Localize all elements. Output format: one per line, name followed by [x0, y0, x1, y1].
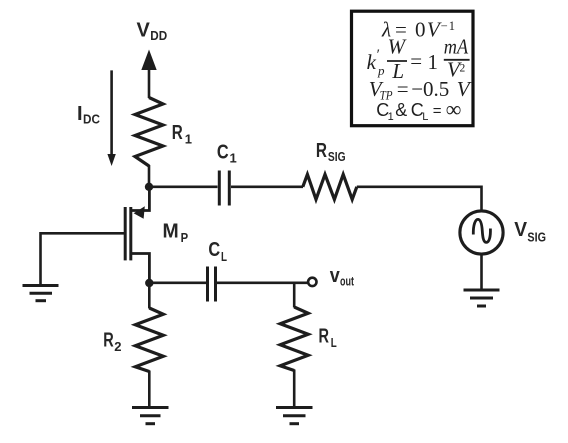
- svg-text:′: ′: [376, 47, 380, 63]
- equation C1 and CL = infinity: [376, 96, 461, 123]
- current arrow IDC: [107, 70, 115, 166]
- wire junction to RL: [293, 283, 296, 308]
- label R2: [103, 330, 121, 355]
- VDD arrow (supply): [141, 50, 156, 99]
- svg-text:C: C: [217, 142, 229, 164]
- svg-text:2: 2: [460, 63, 466, 75]
- capacitor C1: [219, 171, 229, 206]
- svg-text:SIG: SIG: [527, 229, 546, 244]
- svg-text:0: 0: [415, 18, 426, 42]
- svg-text:∞: ∞: [446, 96, 462, 121]
- wire RL to ground: [293, 370, 296, 408]
- wire R2 to ground: [148, 371, 151, 408]
- resistor RL: [280, 307, 308, 371]
- wire node B to CL: [149, 281, 206, 284]
- svg-text:p: p: [377, 63, 385, 78]
- source VSIG circle: [460, 211, 503, 254]
- label CL: [208, 239, 227, 264]
- ground (RL): [276, 408, 313, 424]
- svg-text:mA: mA: [444, 35, 468, 59]
- ground (gate): [23, 286, 59, 301]
- label R1: [172, 122, 192, 146]
- label C1: [217, 142, 237, 166]
- wire node B to R2: [148, 283, 151, 309]
- node A (drain of R1 / source of MP / C1): [145, 183, 153, 191]
- svg-text:I: I: [77, 103, 83, 125]
- resistor RSIG: [303, 174, 357, 199]
- transistor MP (PMOS): [125, 187, 149, 283]
- label MP: [163, 220, 189, 245]
- wire RSIG to VSIG: [357, 187, 482, 211]
- svg-text:=: =: [410, 49, 422, 73]
- svg-text:−0.5: −0.5: [411, 77, 449, 101]
- svg-text:L: L: [331, 335, 337, 350]
- svg-text:L: L: [221, 249, 227, 264]
- svg-text:C: C: [208, 239, 220, 261]
- svg-text:R: R: [316, 140, 328, 162]
- wire VSIG to ground: [480, 254, 483, 290]
- svg-text:2: 2: [114, 339, 121, 354]
- label VDD: [137, 19, 168, 43]
- wire node A to C1: [149, 186, 218, 189]
- label vout: [330, 265, 355, 289]
- resistor R2: [135, 308, 163, 372]
- ground (R2): [132, 408, 169, 424]
- svg-text:DD: DD: [150, 28, 167, 43]
- capacitor CL: [208, 267, 216, 302]
- svg-text:=: =: [433, 102, 442, 119]
- svg-text:out: out: [340, 274, 354, 289]
- svg-text:DC: DC: [83, 112, 100, 127]
- equation lambda = 0 V^-1: [381, 18, 455, 42]
- svg-text:R: R: [103, 330, 114, 352]
- node vout open terminal: [308, 278, 316, 286]
- ground (VSIG): [464, 290, 500, 306]
- wire gate to left: [41, 233, 126, 285]
- svg-text:1: 1: [449, 19, 455, 33]
- svg-text:1: 1: [230, 151, 237, 166]
- label IDC: [77, 103, 100, 127]
- svg-text:L: L: [422, 111, 428, 123]
- svg-text:R: R: [172, 122, 183, 144]
- svg-text:R: R: [319, 326, 330, 348]
- svg-text:−: −: [441, 19, 448, 33]
- svg-text:P: P: [181, 230, 189, 245]
- equation kp' W/L = 1 mA/V^2: [367, 35, 470, 84]
- sine symbol inside VSIG: [473, 219, 490, 242]
- label VSIG: [514, 219, 546, 244]
- svg-text:V: V: [137, 19, 151, 41]
- label RL: [319, 326, 337, 351]
- parameter box frame: [352, 11, 474, 126]
- equation VTP = -0.5 V: [369, 77, 472, 102]
- svg-text:W: W: [388, 35, 408, 59]
- wire R1 bottom to node: [148, 165, 151, 187]
- resistor R1: [135, 98, 163, 167]
- svg-text:&: &: [395, 100, 407, 120]
- svg-text:=: =: [397, 77, 409, 101]
- svg-text:1: 1: [428, 50, 439, 74]
- wire C1 to RSIG: [231, 186, 303, 189]
- node B (drain of MP / R2 / CL): [145, 279, 153, 287]
- label RSIG: [316, 140, 346, 164]
- wire CL to vout: [217, 281, 308, 284]
- svg-text:SIG: SIG: [328, 149, 346, 164]
- svg-text:1: 1: [185, 131, 192, 146]
- svg-text:M: M: [163, 220, 179, 242]
- svg-text:V: V: [514, 219, 527, 241]
- svg-text:v: v: [330, 265, 341, 287]
- svg-text:1: 1: [388, 111, 394, 123]
